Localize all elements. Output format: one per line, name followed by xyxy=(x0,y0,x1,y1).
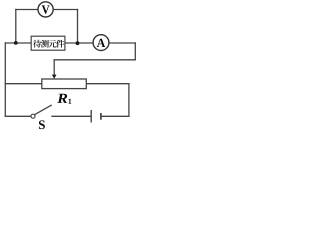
wire voltmeter right vertical xyxy=(77,10,79,44)
wire switch to battery xyxy=(52,115,91,117)
char 待 xyxy=(33,40,41,48)
label R1 subscript 1 xyxy=(69,99,72,104)
battery long plate xyxy=(90,110,92,123)
switch lever xyxy=(35,105,52,114)
char 件 xyxy=(56,40,64,48)
battery short plate xyxy=(100,113,102,120)
node dot right voltmeter tap xyxy=(76,41,80,45)
label 待测元件 xyxy=(33,40,64,48)
char 测 xyxy=(41,40,49,48)
wire voltmeter top xyxy=(16,9,78,11)
char 元 xyxy=(49,40,57,48)
wire left vertical xyxy=(4,43,6,116)
wire box to ammeter and to right corner xyxy=(65,42,135,44)
wire wiper feed horizontal xyxy=(54,59,135,61)
ammeter label A xyxy=(97,39,105,47)
circuit schematic: voltage-divider measurement circuit xyxy=(0,0,141,134)
wire bottom left to switch xyxy=(5,115,30,117)
wire right vertical lower xyxy=(128,84,130,117)
wire wiper vertical xyxy=(53,60,55,76)
node dot left voltmeter tap xyxy=(14,41,18,45)
wire rheostat left lead xyxy=(5,83,42,85)
label S xyxy=(39,120,45,129)
wire voltmeter left vertical xyxy=(15,10,17,43)
wire right vertical upper xyxy=(134,43,136,60)
voltmeter U-V circle xyxy=(38,2,53,17)
wire battery to bottom right corner xyxy=(102,115,129,117)
voltmeter label V xyxy=(42,5,50,13)
label R1 letter R xyxy=(57,94,67,103)
wire rheostat right lead xyxy=(86,83,129,85)
wire main row left xyxy=(5,42,31,44)
rheostat R1 body xyxy=(42,79,87,89)
switch S pivot circle xyxy=(31,114,35,118)
rheostat wiper arrowhead xyxy=(52,75,57,79)
ammeter U-A circle xyxy=(93,35,109,51)
device under test box xyxy=(31,36,65,50)
